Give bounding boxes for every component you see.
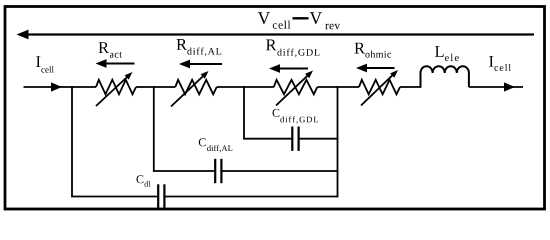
wire: [400, 86, 421, 88]
inductor L_ele: [421, 66, 469, 87]
wire: [317, 86, 359, 88]
arrow over R_ohmic: [363, 67, 395, 69]
label R_act: [99, 42, 110, 53]
label C_dl: [137, 175, 144, 183]
wire: [136, 86, 175, 88]
wire: [217, 86, 274, 88]
label R_diff,AL: [177, 39, 188, 50]
label V_cell: [258, 12, 270, 24]
minus sign: [293, 17, 309, 19]
label L_ele: [435, 46, 444, 57]
wire C_diff,GDL branch left: [243, 138, 292, 140]
output wire with current arrow: [469, 86, 523, 88]
arrow over R_diff,GDL: [276, 68, 308, 70]
wire C_dl branch right: [164, 196, 338, 198]
arrow over R_diff,AL: [186, 63, 222, 65]
resistor R_diff,GDL (variable): [274, 80, 318, 95]
node B wire down to C_diff,AL branch: [153, 86, 155, 171]
label R_ohmic: [355, 43, 366, 54]
node A wire down to C_dl branch: [71, 86, 73, 196]
capacitor C_diff,GDL: [291, 127, 293, 151]
top voltage arrow: [26, 33, 534, 35]
resistor R_ohmic (variable): [359, 80, 400, 95]
capacitor C_dl: [157, 184, 159, 208]
wire C_dl branch left: [71, 196, 158, 198]
label C_diff,AL: [199, 138, 206, 146]
resistor R_diff,AL (variable): [175, 80, 216, 95]
node C wire down to C_diff,GDL branch: [243, 86, 245, 139]
wire C_diff,GDL branch right: [299, 138, 339, 140]
label I_cell (input): [36, 56, 40, 67]
wire C_diff,AL branch right: [221, 170, 338, 172]
input wire with current arrow: [24, 86, 97, 88]
label I_cell (output): [489, 56, 493, 67]
label R_diff,GDL: [266, 40, 277, 51]
node D common right wire: [337, 86, 339, 196]
label V_rev: [310, 12, 322, 24]
resistor R_act (variable): [96, 80, 136, 95]
capacitor C_diff,AL: [214, 159, 216, 183]
wire C_diff,AL branch left: [153, 170, 215, 172]
label C_diff,GDL: [273, 109, 280, 117]
arrow over R_act: [102, 63, 135, 65]
